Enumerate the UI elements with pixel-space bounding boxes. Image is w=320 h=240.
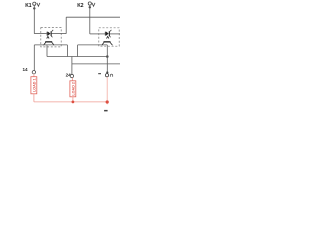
transistor Q2 in K2 <box>102 36 113 45</box>
junction dot below terminal K2 <box>89 6 91 8</box>
red junction dot LOAD 2 on rail <box>72 101 75 104</box>
wire emitter drop K1 <box>46 45 48 56</box>
terminal 14 (circle) <box>32 71 35 74</box>
wire K1 terminal down <box>33 5 35 33</box>
minus sign <box>98 73 101 74</box>
wire into K1 LED <box>34 33 46 35</box>
optocoupler box K2 (dashed) <box>99 28 119 46</box>
minus polarity mark below rail <box>104 110 108 112</box>
glyph right of minus terminal <box>110 74 112 77</box>
wire riser terminal 24 <box>71 57 73 75</box>
wire common rail <box>47 56 107 58</box>
arrow at terminal K2 <box>92 3 95 6</box>
wire from K1 LED to riser <box>52 33 67 35</box>
junction dot rail end <box>106 55 109 58</box>
minus terminal (circle) <box>105 74 108 77</box>
wire riser up from K1 LED <box>65 17 67 33</box>
LED D1 in K1 <box>47 30 54 37</box>
wire drop at left of K2 <box>77 45 79 57</box>
optocoupler box K1 (dashed) <box>41 28 61 47</box>
wire emitter drop K2 down to minus terminal <box>106 45 108 73</box>
LED D2 in K2 <box>105 30 112 37</box>
red wire terminal 24 to LOAD 2 <box>71 78 73 81</box>
wire branch to right edge <box>72 63 120 65</box>
arrow at terminal K1 <box>37 3 40 6</box>
red wire LOAD 2 down to rail <box>72 97 74 102</box>
terminal 24 (circle) <box>70 74 73 77</box>
svg-text:LOAD 2: LOAD 2 <box>71 82 75 96</box>
red junction dot rail right end <box>106 100 109 103</box>
LOAD 2 box <box>70 81 76 97</box>
wire top rail to right edge <box>66 16 120 18</box>
red wire minus terminal down to rail <box>106 77 108 104</box>
red wire terminal 14 to LOAD 1 <box>33 74 35 77</box>
wire from K2 LED to right edge <box>110 33 120 35</box>
junction dot below terminal K1 <box>33 7 35 9</box>
wire into K2 LED <box>90 33 105 35</box>
terminal K1 (circle) <box>33 2 36 5</box>
svg-text:K1: K1 <box>25 3 32 9</box>
LOAD 1 box <box>31 77 37 94</box>
terminal K2 (circle) <box>88 2 91 5</box>
wire collector line K2 <box>78 44 108 46</box>
red wire LOAD 1 down <box>33 94 35 102</box>
wire K2 terminal down <box>89 5 91 34</box>
wire riser to terminal 14 <box>33 45 35 71</box>
wire drop at right of K1 <box>66 45 68 57</box>
junction dot above minus terminal <box>106 71 108 73</box>
red bottom rail <box>34 101 107 103</box>
svg-text:LOAD 1: LOAD 1 <box>32 78 36 92</box>
svg-text:14: 14 <box>22 67 28 72</box>
transistor Q1 in K1 <box>43 36 54 45</box>
svg-text:K2: K2 <box>77 3 84 9</box>
wire collector line K1 / terminal 14 branch <box>34 44 67 46</box>
